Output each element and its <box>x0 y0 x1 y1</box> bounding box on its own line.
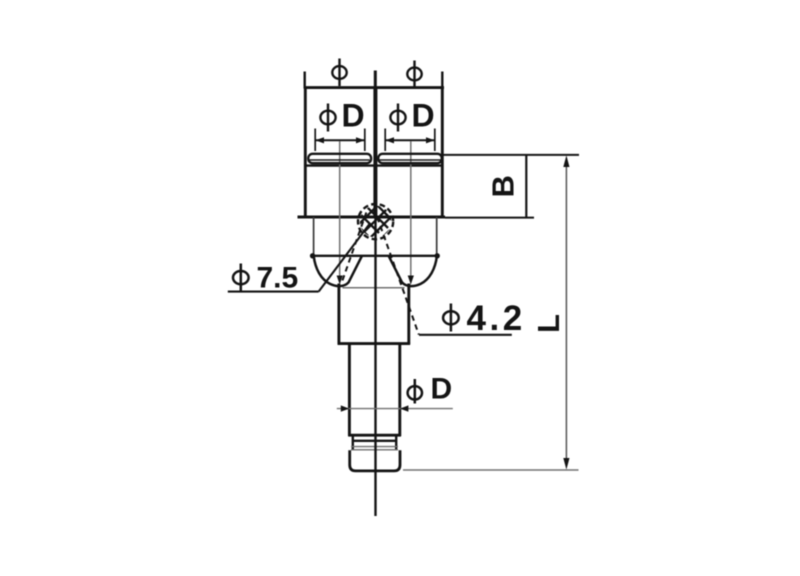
phi D bottom arrow left <box>341 405 349 411</box>
neck right edge <box>395 436 397 450</box>
top dimension line <box>304 86 444 89</box>
line under release collars <box>305 164 442 166</box>
phi symbol top-right <box>407 61 421 88</box>
L top arrow <box>563 155 569 167</box>
top dimension tick right <box>441 72 443 89</box>
phi symbol top-left <box>332 59 346 87</box>
L bottom arrow <box>563 458 569 470</box>
shoulder line <box>312 255 438 257</box>
phi 7.5 leader horizontal <box>228 291 319 293</box>
shoulder end dot right <box>435 253 440 258</box>
phi 7.5 leader diagonal <box>319 224 370 292</box>
phi D bottom label <box>408 379 422 404</box>
neck thin line 2 <box>351 449 398 451</box>
knurled junction circle <box>358 204 393 239</box>
stem block right edge <box>407 284 410 345</box>
neck groove line <box>352 440 397 442</box>
neck left edge <box>352 436 354 450</box>
top dimension tick middle <box>374 71 377 89</box>
shaft left edge <box>348 344 351 436</box>
stem block top line <box>343 287 405 289</box>
svg-text:4.2: 4.2 <box>467 299 526 338</box>
shaft right edge <box>398 344 401 436</box>
shaft bottom line <box>348 434 401 437</box>
release collar slot right <box>378 154 441 163</box>
bottom cap <box>350 450 400 471</box>
right branch dome <box>389 256 437 286</box>
shoulder end dot left <box>310 253 315 258</box>
stem block left edge <box>337 284 340 345</box>
left branch dome <box>314 256 362 286</box>
phi D label upper-left <box>320 104 335 132</box>
svg-text:7.5: 7.5 <box>257 262 299 295</box>
B dimension extension bottom <box>445 217 534 219</box>
collet body outline <box>298 88 446 217</box>
L bottom extension line <box>403 469 579 471</box>
top dimension tick left <box>304 72 306 89</box>
svg-text:D: D <box>431 373 453 406</box>
release collar slot left <box>308 154 371 163</box>
extension lines phiD upper-right <box>385 129 435 152</box>
dimension line phiD upper-right <box>385 137 435 143</box>
neck thin line 1 <box>351 446 398 448</box>
mid section right side <box>436 217 438 256</box>
right branch centerline <box>410 141 412 278</box>
svg-text:B: B <box>486 175 521 197</box>
svg-text:L: L <box>531 314 566 333</box>
phi D label upper-right <box>390 104 405 132</box>
left branch centerline <box>339 141 341 278</box>
hidden passage dashed left <box>341 213 366 285</box>
phi 4.2 label <box>443 304 459 332</box>
B dimension line <box>525 155 527 218</box>
center divider wall <box>373 88 377 218</box>
phi 4.2 leader underline <box>419 334 512 336</box>
phi 7.5 label <box>233 264 249 292</box>
phi D bottom arrow right <box>400 405 408 411</box>
B dimension extension top <box>442 154 579 156</box>
stem block bottom line <box>338 342 411 345</box>
mid section left side <box>313 217 315 256</box>
extension lines phiD upper-left <box>315 129 365 152</box>
hidden passage / phi4.2 leader dashed right <box>377 217 419 335</box>
svg-text:D: D <box>342 98 365 134</box>
phi D bottom dimension line <box>337 408 453 410</box>
svg-text:D: D <box>412 98 435 134</box>
main centerline <box>374 218 376 516</box>
dimension line phiD upper-left <box>315 137 365 143</box>
L dimension line <box>565 158 567 466</box>
